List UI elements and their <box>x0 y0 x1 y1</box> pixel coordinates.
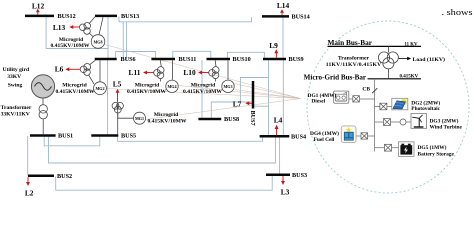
micro-grid bus-bar <box>306 78 421 80</box>
svg-text:MG8: MG8 <box>93 39 102 44</box>
load arrow L14 <box>281 12 283 15</box>
bus BUS11 <box>151 58 175 61</box>
DG3 branch <box>375 121 384 123</box>
svg-text:L11: L11 <box>129 68 141 77</box>
callout line from MG3 top <box>234 84 300 99</box>
wire BUS5-BUS4 tie <box>118 136 263 141</box>
bus BUS13 <box>95 15 117 18</box>
svg-text:BUS1: BUS1 <box>58 133 73 140</box>
svg-text:BUS13: BUS13 <box>121 13 139 20</box>
load arrow L13 <box>73 26 80 28</box>
svg-text:Fuel Cell: Fuel Cell <box>314 137 335 143</box>
wire bridge BUS11-BUS10 <box>173 51 211 58</box>
svg-text:BUS2: BUS2 <box>57 173 72 180</box>
svg-text:Diesel: Diesel <box>311 99 325 105</box>
load arrow L5 <box>117 93 119 103</box>
photovoltaic icon DG2 <box>392 98 408 110</box>
svg-text:BUS14: BUS14 <box>292 14 310 21</box>
transformer 33KV/11KV <box>39 98 47 134</box>
svg-text:DG5 (1MW): DG5 (1MW) <box>418 144 447 151</box>
wire BUS6 down to BUS5 <box>107 60 109 135</box>
DG2 branch <box>375 106 380 108</box>
DG1 branch <box>360 98 375 100</box>
bus BUS10 <box>207 58 231 61</box>
wire BUS14 down to BUS9 <box>282 17 284 58</box>
wire BUS13 down to BUS6 <box>107 17 109 58</box>
svg-text:MG3: MG3 <box>223 84 232 89</box>
svg-text:MG4: MG4 <box>167 84 176 89</box>
load arrow L4 <box>276 128 278 135</box>
svg-text:BUS5: BUS5 <box>121 133 136 140</box>
wire stub A below top link <box>122 22 124 60</box>
bus BUS1 <box>30 134 56 137</box>
svg-text:Photovoltaic: Photovoltaic <box>411 106 440 112</box>
svg-text:Load (11KV): Load (11KV) <box>413 56 446 63</box>
svg-text:BUS8: BUS8 <box>224 116 239 123</box>
svg-text:L2: L2 <box>25 189 34 198</box>
bus BUS8 <box>198 118 221 121</box>
svg-text:DG4 (1MW): DG4 (1MW) <box>310 130 339 137</box>
microgrid MG8 circle <box>91 35 105 49</box>
svg-text:Microgrid: Microgrid <box>154 112 179 118</box>
svg-text:BUS4: BUS4 <box>291 134 306 141</box>
svg-text:0.415KV/10MW: 0.415KV/10MW <box>127 89 166 95</box>
svg-text:33KV: 33KV <box>7 74 21 80</box>
svg-text:L10: L10 <box>183 68 196 77</box>
load arrow L7 <box>249 102 253 104</box>
DG5 branch <box>375 147 385 149</box>
transformer symbol L11 <box>154 60 173 81</box>
transformer symbol L6 <box>80 60 100 84</box>
svg-text:L9: L9 <box>269 41 278 50</box>
battery storage icon DG5 <box>399 142 415 157</box>
svg-text:0.415KV/10MW: 0.415KV/10MW <box>148 118 187 124</box>
svg-text:L3: L3 <box>281 188 290 197</box>
svg-text:L6: L6 <box>55 64 64 73</box>
svg-text:0.415KV/10MW: 0.415KV/10MW <box>51 43 90 49</box>
fuel cell icon DG4 <box>341 126 356 143</box>
bus BUS12 <box>25 15 54 18</box>
dashed circle boundary <box>307 21 469 193</box>
svg-text:0.415KV: 0.415KV <box>400 75 419 80</box>
breaker DG5 <box>385 144 392 151</box>
transformer symbol L10 <box>209 60 228 81</box>
CB breaker <box>374 79 376 152</box>
wire BUS9 down to BUS4 right vertical <box>282 60 284 135</box>
wire BUS9 down to BUS4 left vertical <box>268 60 270 135</box>
bus BUS4 <box>260 135 290 138</box>
generator utility <box>31 75 54 98</box>
svg-text:L4: L4 <box>274 116 283 125</box>
wire BUS4-BUS3 vertical <box>279 137 281 175</box>
callout line from MG2 <box>106 89 300 99</box>
load arrow L6 <box>69 68 81 70</box>
svg-text:Utility gird: Utility gird <box>3 67 30 73</box>
breaker DG3 <box>384 119 391 126</box>
svg-text:Micro-Grid Bus-Bar: Micro-Grid Bus-Bar <box>304 74 366 82</box>
svg-text:Battery Storage: Battery Storage <box>418 151 455 157</box>
svg-text:L7: L7 <box>233 99 242 108</box>
diesel generator icon DG1 <box>334 91 349 103</box>
load arrow L3 <box>282 176 284 182</box>
breaker DG4 <box>361 133 368 139</box>
wire stub B below top link <box>126 22 128 60</box>
wire bridge BUS6-BUS11 <box>116 52 156 59</box>
wire BUS13 to BUS14 top link <box>119 17 252 22</box>
wire elbow toward BUS7 <box>240 78 268 103</box>
wire BUS10 down to BUS8 <box>201 60 203 119</box>
svg-text:L12: L12 <box>32 2 45 11</box>
wire BUS7 mid to vertical <box>253 105 269 107</box>
load arrow L10 <box>201 72 209 74</box>
svg-text:BUS12: BUS12 <box>58 13 76 20</box>
svg-text:BUS3: BUS3 <box>292 172 307 179</box>
breaker DG1 <box>353 96 360 102</box>
bus BUS14 <box>262 15 289 18</box>
wind turbine icon DG3 <box>411 114 427 129</box>
svg-text:11 KV: 11 KV <box>405 42 418 47</box>
callout line from MG8 <box>105 45 301 99</box>
load arrow L11 <box>146 72 154 74</box>
callout line from MG3 bottom <box>234 90 300 99</box>
transformer symbol BUS5 <box>112 102 134 134</box>
svg-text:Transformer: Transformer <box>338 56 370 62</box>
svg-text:Microgrid: Microgrid <box>62 82 87 88</box>
svg-text:33KV/11KV: 33KV/11KV <box>1 112 30 118</box>
svg-text:11KV/11KV/0.415KV: 11KV/11KV/0.415KV <box>326 62 382 68</box>
bus BUS9 <box>263 58 286 61</box>
svg-text:BUS11: BUS11 <box>179 56 197 63</box>
svg-text:L14: L14 <box>277 1 290 10</box>
wire BUS1-BUS4 tie <box>49 136 276 163</box>
svg-text:CB: CB <box>362 86 370 92</box>
svg-text:L13: L13 <box>53 23 66 32</box>
svg-text:BUS9: BUS9 <box>289 56 304 63</box>
svg-text:. shows: . shows <box>442 7 474 17</box>
svg-text:BUS7: BUS7 <box>249 111 256 126</box>
microgrid MG3 circle <box>222 80 234 92</box>
callout line from MG1 <box>145 99 301 120</box>
wire BUS1-BUS5 elbow <box>44 136 100 146</box>
transformer 11KV/11KV/0.415KV <box>378 46 398 78</box>
converter circle DG3 <box>400 119 406 125</box>
DG4 branch <box>368 135 375 137</box>
transformer symbol L13 <box>80 17 104 37</box>
main bus-bar <box>328 45 422 47</box>
svg-text:MG1: MG1 <box>135 116 144 121</box>
microgrid MG1 circle <box>134 112 146 124</box>
svg-text:Wind Turbine: Wind Turbine <box>430 125 463 131</box>
svg-text:Microgrid: Microgrid <box>191 82 216 88</box>
bus BUS5 <box>91 134 118 137</box>
bus BUS6 <box>95 58 117 61</box>
microgrid MG2 circle <box>94 82 107 95</box>
bus BUS3 <box>266 174 290 177</box>
wire BUS1 down to BUS2 <box>27 136 29 176</box>
microgrid MG4 circle <box>166 80 178 92</box>
svg-text:BUS10: BUS10 <box>233 56 251 63</box>
svg-text:DG3 (2MW): DG3 (2MW) <box>430 117 459 124</box>
svg-text:0.415KV/10MW: 0.415KV/10MW <box>56 89 95 95</box>
svg-text:Microgrid: Microgrid <box>135 82 160 88</box>
bus BUS7 (vertical) <box>252 81 255 109</box>
load arrow L9 <box>275 53 277 58</box>
load (11KV) arrow <box>399 57 411 61</box>
svg-text:0.415KV/10MW: 0.415KV/10MW <box>183 89 222 95</box>
svg-text:Swing: Swing <box>8 82 23 88</box>
load arrow L12 <box>37 12 39 15</box>
callout line from MG4 <box>179 86 301 99</box>
wire BUS12 cell left drop <box>46 17 108 49</box>
svg-text:Main Bus-Bar: Main Bus-Bar <box>328 38 373 47</box>
wire bridge BUS10-BUS9 <box>227 52 264 58</box>
svg-text:Microgrid: Microgrid <box>59 37 84 43</box>
svg-text:L5: L5 <box>113 80 122 89</box>
load arrow L2 <box>27 177 29 183</box>
svg-text:BUS6: BUS6 <box>121 56 136 63</box>
bus BUS2 <box>28 175 54 178</box>
svg-text:Transformer: Transformer <box>1 105 32 111</box>
wire BUS2-BUS3 bottom tie <box>56 175 273 190</box>
svg-text:MG2: MG2 <box>95 86 104 91</box>
breaker DG2 <box>380 103 387 110</box>
wire BUS8 up elbow to BUS7 <box>211 102 252 119</box>
